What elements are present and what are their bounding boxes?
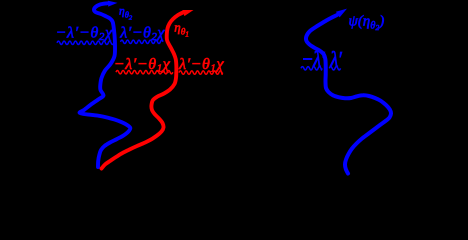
wavy underline under -lambda-prime-theta2-chi — [57, 41, 114, 44]
arrowhead of psi(eta_theta2) — [336, 9, 347, 18]
arrowhead of eta_theta1 — [183, 10, 194, 16]
blue image curve psi(eta_theta2) — [306, 15, 391, 174]
wavy underline under -lambda-prime-theta1-chi — [116, 71, 173, 74]
wavy underline under lambda-prime right — [329, 67, 340, 70]
wavy underline under -lambda-prime right — [301, 67, 322, 70]
wavy underline under lambda-prime-theta2-chi — [121, 40, 164, 43]
blue counterflow line eta_theta2 — [80, 3, 131, 167]
svg-text:λ′−θ1χ: λ′−θ1χ — [178, 56, 224, 75]
wavy underline under lambda-prime-theta1-chi — [179, 71, 223, 74]
svg-text:ψ(ηθ2): ψ(ηθ2) — [349, 13, 385, 32]
svg-text:−λ′−θ2χ: −λ′−θ2χ — [56, 24, 114, 43]
svg-text:λ′−θ2χ: λ′−θ2χ — [119, 24, 165, 43]
svg-text:λ′: λ′ — [329, 48, 342, 72]
svg-text:−λ′: −λ′ — [301, 48, 325, 72]
svg-text:−λ′−θ1χ: −λ′−θ1χ — [114, 56, 171, 75]
arrowhead of eta_theta2 — [108, 1, 118, 7]
red counterflow line eta_theta1 — [102, 12, 185, 169]
